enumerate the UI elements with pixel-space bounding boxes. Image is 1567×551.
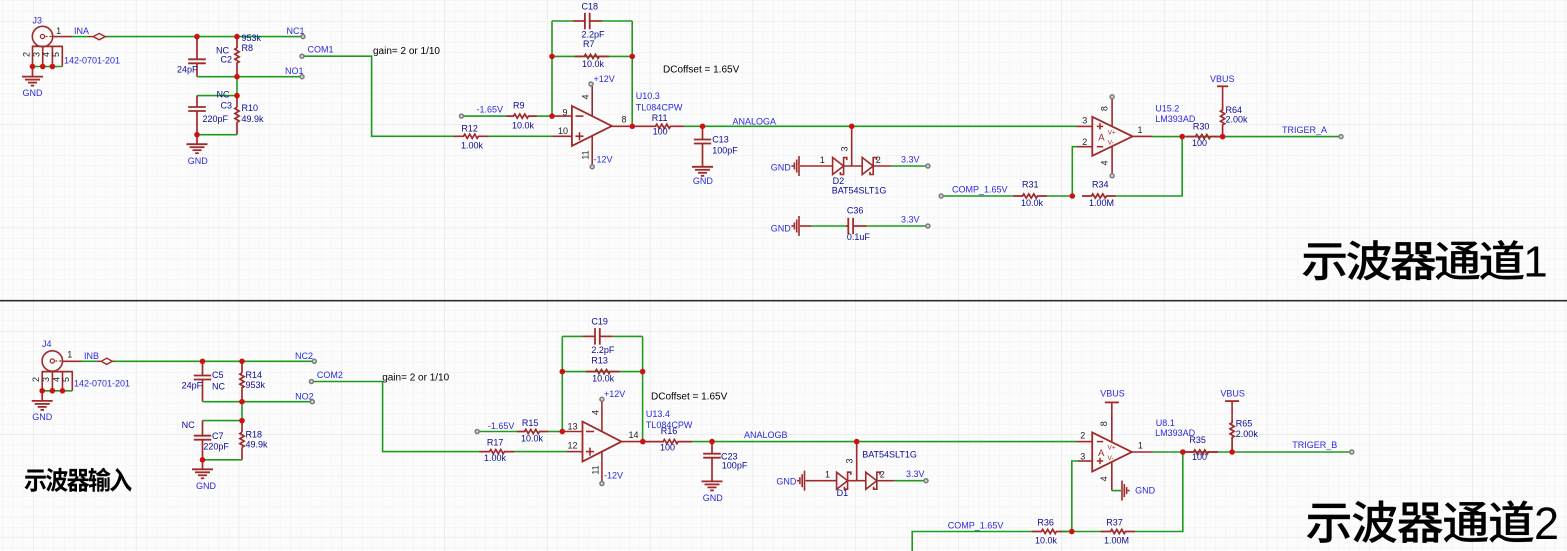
label C18 <box>582 2 599 12</box>
label TL084CPW <box>636 102 683 112</box>
pin number 1 of U15.2 <box>1137 125 1142 135</box>
svg-text:100: 100 <box>1192 138 1207 148</box>
wire C18 row right <box>602 20 632 22</box>
resistor R30 100 <box>1186 135 1220 139</box>
wire R7 row <box>552 55 632 57</box>
label C36 <box>847 206 864 216</box>
wire COMP_1.65V ch2 <box>912 532 1032 551</box>
svg-text:142-0701-201: 142-0701-201 <box>74 378 130 388</box>
svg-text:U8.1: U8.1 <box>1156 418 1175 428</box>
comparator U8.1 LM393AD <box>1077 413 1153 491</box>
port 3.3V at D2 <box>926 164 930 168</box>
svg-text:BAT54SLT1G: BAT54SLT1G <box>862 450 917 460</box>
value 49.9k of R18 <box>246 440 269 450</box>
junction J3 pin3 <box>40 64 46 70</box>
wire D2 middle <box>844 165 863 167</box>
label C5 <box>212 370 224 380</box>
svg-text:GND: GND <box>693 176 714 186</box>
svg-text:1: 1 <box>1137 125 1142 135</box>
resistor R7 10.0k <box>575 54 609 58</box>
wire C3-R10 bottom rail <box>197 134 237 136</box>
resistor R13 10.0k <box>586 370 620 374</box>
label C13 <box>712 134 729 144</box>
net label ANALOGB <box>744 430 788 440</box>
label R15 <box>522 418 539 428</box>
junction R36-R37 <box>1069 529 1075 535</box>
wire pin4 to GND <box>1112 490 1121 492</box>
wire R16 to ANALOGB node <box>692 441 712 443</box>
svg-text:2.2pF: 2.2pF <box>591 345 615 355</box>
label R7 <box>583 39 595 49</box>
value 100 of R35 <box>1192 452 1207 462</box>
wire GND to D2 anode <box>800 165 833 167</box>
label GND at C36 <box>771 224 792 234</box>
junction R13 right <box>640 369 646 375</box>
svg-text:A: A <box>1098 448 1105 459</box>
svg-text:11: 11 <box>581 150 591 159</box>
junction NO1 node <box>234 74 240 80</box>
net label NC1 <box>286 26 304 36</box>
ground GND at C3 <box>187 135 208 154</box>
label R13 <box>591 356 608 366</box>
svg-text:BAT54SLT1G: BAT54SLT1G <box>832 186 887 196</box>
svg-text:GND: GND <box>196 481 217 491</box>
net port diamond INB <box>97 358 115 364</box>
label U8.1 <box>1156 418 1175 428</box>
junction D1 pin3 on ANALOGB <box>854 439 860 445</box>
port 3.3V at C36 <box>926 224 930 228</box>
svg-text:GND: GND <box>771 163 792 173</box>
pin number 12 <box>567 441 577 451</box>
net label +12V at U13.4 <box>604 389 625 399</box>
label R16 <box>661 426 678 436</box>
capacitor C3 220pF <box>188 96 206 135</box>
svg-text:100: 100 <box>653 126 668 136</box>
pin number 4 of U8.1 <box>1099 476 1109 481</box>
annotation gain <box>373 46 440 57</box>
wire C7 top rail <box>203 420 243 422</box>
label GND at U8.1 <box>1135 485 1156 495</box>
svg-text:2: 2 <box>21 52 31 57</box>
svg-text:953k: 953k <box>246 380 266 390</box>
svg-text:220pF: 220pF <box>203 114 229 124</box>
svg-text:R35: R35 <box>1189 435 1206 445</box>
net label ANALOGA <box>733 116 777 126</box>
ground GND signal at D1 <box>797 471 805 491</box>
port COM1 <box>300 54 304 58</box>
net label -1.65V ch2 <box>488 421 515 431</box>
annotation DCoffset <box>663 65 740 76</box>
junction ANALOGA-C13 <box>700 124 706 130</box>
wire INB to NC2 <box>115 360 315 362</box>
svg-text:C13: C13 <box>712 134 729 144</box>
junction R35-R65 <box>1229 449 1235 455</box>
wire comparator plus input ch2 <box>1072 461 1078 532</box>
op-amp U13.4 TL084CPW <box>562 399 643 483</box>
svg-text:R30: R30 <box>1193 122 1210 132</box>
pin 3 lead of D1 <box>856 442 858 481</box>
wire R15 to inverting input <box>548 431 562 433</box>
comparator U15.2 LM393AD <box>1077 97 1153 176</box>
wire R35 row <box>1183 451 1232 453</box>
label R65 <box>1236 419 1253 429</box>
svg-text:100pF: 100pF <box>722 460 748 470</box>
svg-text:ANALOGA: ANALOGA <box>733 116 777 126</box>
svg-text:10.0k: 10.0k <box>1021 198 1044 208</box>
value 2.2pF of C18 <box>582 29 606 39</box>
ground GND at C23 <box>702 481 723 490</box>
svg-text:A: A <box>1098 132 1105 143</box>
svg-text:1: 1 <box>1523 238 1547 287</box>
wire feedback left vertical <box>551 21 553 116</box>
svg-text:2.2pF: 2.2pF <box>582 29 606 39</box>
svg-text:8: 8 <box>1099 421 1109 426</box>
label LM393AD ch2 <box>1155 428 1196 438</box>
capacitor C5 <box>194 361 211 401</box>
port -1.65V ch2 <box>475 430 479 434</box>
wire C3 top rail <box>197 95 237 97</box>
capacitor C2 <box>188 37 206 77</box>
svg-text:-12V: -12V <box>604 471 623 481</box>
ground GND signal at D2 <box>791 156 799 176</box>
svg-text:1: 1 <box>1138 440 1143 450</box>
svg-text:4: 4 <box>581 94 591 99</box>
power VBUS at R65 <box>1225 401 1239 418</box>
svg-text:49.9k: 49.9k <box>246 440 269 450</box>
svg-text:1: 1 <box>56 26 61 36</box>
capacitor C36 0.1uF <box>846 218 867 234</box>
wire -1.65V to R9 <box>464 115 507 117</box>
value 10.0k of R13 <box>592 374 615 384</box>
label R10 <box>242 103 259 113</box>
label R12 <box>461 124 478 134</box>
net port diamond INA <box>88 33 107 39</box>
svg-text:gain= 2 or 1/10: gain= 2 or 1/10 <box>382 372 449 383</box>
value 100pF of C23 <box>722 460 748 470</box>
label C2 <box>221 54 233 64</box>
wire GND to C36 lead <box>800 225 812 227</box>
net label 3.3V at D1 <box>906 469 925 479</box>
label D2 <box>833 176 845 186</box>
net label INB <box>84 351 99 361</box>
svg-text:4: 4 <box>1100 160 1110 165</box>
wire R17 to non-inverting input <box>515 451 568 453</box>
wire C7-R18 bottom rail <box>203 459 243 461</box>
net label 3.3V at C36 <box>901 215 920 225</box>
ground GND at C13 <box>692 164 713 175</box>
label GND at C3 <box>188 156 209 166</box>
label LM393AD <box>1155 114 1196 124</box>
port NO2 <box>310 400 314 404</box>
pin number 2 of D2 <box>876 155 881 165</box>
port NC1 <box>301 35 305 39</box>
svg-text:C2: C2 <box>221 54 233 64</box>
svg-text:+12V: +12V <box>594 74 615 84</box>
ground GND at C7 <box>192 460 213 479</box>
svg-text:1.00k: 1.00k <box>484 453 507 463</box>
pin number 8 of U15.2 <box>1100 106 1110 111</box>
svg-text:R65: R65 <box>1236 419 1253 429</box>
port TRIGER_A <box>1339 135 1343 139</box>
svg-text:U15.2: U15.2 <box>1155 103 1179 113</box>
value 2.00k of R65 <box>1236 429 1259 439</box>
wire COM2 to R17 row <box>311 382 479 452</box>
label GND at D2 <box>771 163 792 173</box>
pin number 3 of D2 <box>839 146 849 151</box>
svg-text:24pF: 24pF <box>182 380 203 390</box>
wire J3 pins to ground <box>33 66 63 68</box>
wire R34 to feedback vertical <box>1116 137 1182 196</box>
connector J3 BNC 142-0701-201 <box>32 26 72 66</box>
wire J4 pin1 to port <box>82 360 97 362</box>
pin number 14 <box>628 430 638 440</box>
svg-text:4: 4 <box>590 410 600 415</box>
junction C3-R10 top node <box>234 93 240 99</box>
svg-text:3.3V: 3.3V <box>901 155 920 165</box>
value 142-0701-201 of J3 <box>64 56 120 66</box>
net label -1.65V <box>477 104 504 114</box>
svg-text:D2: D2 <box>833 176 845 186</box>
label NC of C3 <box>217 89 230 99</box>
ground GND signal at U8.1 <box>1122 481 1130 501</box>
svg-text:3: 3 <box>41 377 51 382</box>
port 3.3V at D1 <box>924 479 928 483</box>
label R35 <box>1189 435 1206 445</box>
svg-text:142-0701-201: 142-0701-201 <box>64 56 120 66</box>
net label NO2 <box>295 391 314 401</box>
value 220pF of C3 <box>203 114 229 124</box>
svg-text:VBUS: VBUS <box>1210 74 1235 84</box>
svg-text:100: 100 <box>660 443 675 453</box>
junction node INA-C2 <box>194 34 200 40</box>
svg-text:U10.3: U10.3 <box>636 91 660 101</box>
value 24pF of C5 <box>182 380 203 390</box>
label GND at C7 <box>196 481 217 491</box>
value 100 of R16 <box>660 443 675 453</box>
svg-text:12: 12 <box>567 441 577 451</box>
svg-text:0.1uF: 0.1uF <box>847 232 871 242</box>
svg-text:2: 2 <box>876 155 881 165</box>
label GND at C23 <box>703 493 724 503</box>
junction output feedback node ch2 <box>1180 449 1186 455</box>
svg-text:R64: R64 <box>1226 105 1243 115</box>
pin number 1 of D1 <box>825 470 830 480</box>
value 10.0k of R7 <box>582 59 605 69</box>
wire C2-R8 bottom to NO1 <box>197 76 302 78</box>
pin number 1 of U8.1 <box>1138 440 1143 450</box>
svg-text:NC: NC <box>182 420 195 430</box>
svg-text:2: 2 <box>31 377 41 382</box>
resistor R37 1.00M <box>1101 529 1135 533</box>
section divider line <box>0 300 1567 302</box>
svg-text:GND: GND <box>32 412 53 422</box>
label R31 <box>1022 180 1039 190</box>
wire R36-R37 row <box>1066 531 1101 533</box>
port NC2 <box>312 359 316 363</box>
title text channel 2 <box>1307 498 1559 549</box>
svg-text:8: 8 <box>621 114 626 124</box>
pin number 2 of U15.2 <box>1082 137 1087 147</box>
svg-text:V-: V- <box>1108 455 1114 462</box>
junction J4 pin4 <box>60 388 66 394</box>
net label -12V at U10.3 <box>594 154 613 164</box>
svg-text:R17: R17 <box>487 437 504 447</box>
wire R11 to ANALOGA node <box>684 125 703 127</box>
port pin8 open <box>1110 95 1114 99</box>
junction op-amp output ch2 <box>640 439 646 445</box>
label R11 <box>652 113 668 123</box>
resistor R11 100 <box>632 124 684 128</box>
label C7 <box>212 431 224 441</box>
svg-text:2.00k: 2.00k <box>1226 115 1249 125</box>
wire R36 to node <box>1062 531 1072 533</box>
label R64 <box>1226 105 1243 115</box>
resistor R35 100 <box>1184 450 1218 454</box>
value 100 of R11 <box>653 126 668 136</box>
junction C7 ground node <box>200 457 206 463</box>
label U10.3 <box>636 91 660 101</box>
svg-text:3.3V: 3.3V <box>901 215 920 225</box>
junction J3 pin2 <box>30 64 36 70</box>
wire D1 middle <box>848 480 866 482</box>
port -1.65V <box>460 114 464 118</box>
wire feedback right vertical <box>631 21 633 126</box>
pin number 2 of D1 <box>880 470 885 480</box>
svg-text:GND: GND <box>771 224 792 234</box>
svg-text:5: 5 <box>51 52 61 57</box>
svg-text:1: 1 <box>820 155 825 165</box>
net label COM2 <box>317 370 343 380</box>
svg-text:-1.65V: -1.65V <box>488 421 515 431</box>
svg-text:COMP_1.65V: COMP_1.65V <box>948 521 1004 531</box>
wire COMP to R31 <box>943 195 1013 197</box>
svg-text:R13: R13 <box>591 356 608 366</box>
svg-text:R31: R31 <box>1022 180 1039 190</box>
value 1.00k of R17 <box>484 453 507 463</box>
svg-text:10: 10 <box>558 126 568 136</box>
net label VBUS at R64 <box>1210 74 1235 84</box>
resistor R14 953k <box>240 361 244 401</box>
wire D2 cathode lead <box>873 165 892 167</box>
resistor R18 49.9k <box>240 421 244 460</box>
value 10.0k of R15 <box>521 434 544 444</box>
svg-text:1: 1 <box>67 350 72 360</box>
pin number 4 of U15.2 <box>1100 160 1110 165</box>
svg-text:1.00k: 1.00k <box>461 141 484 151</box>
value 953k of R8 <box>242 33 262 43</box>
svg-text:GND: GND <box>776 476 797 486</box>
value 1.00M of R34 <box>1089 198 1114 208</box>
svg-text:R12: R12 <box>461 124 478 134</box>
value 24pF of C2 <box>177 65 198 75</box>
label GND at D1 <box>776 476 797 486</box>
svg-text:U13.4: U13.4 <box>646 409 670 419</box>
value 10.0k of R31 <box>1021 198 1044 208</box>
wire pin1 to R30 <box>1153 136 1183 138</box>
svg-text:TL084CPW: TL084CPW <box>636 102 683 112</box>
svg-text:4: 4 <box>1099 476 1109 481</box>
pin number 11 <box>581 150 591 159</box>
svg-text:COMP_1.65V: COMP_1.65V <box>952 185 1008 195</box>
svg-text:R10: R10 <box>242 103 259 113</box>
svg-text:GND: GND <box>188 156 209 166</box>
wire feedback left vertical ch2 <box>561 336 563 431</box>
value 10.0k of R36 <box>1035 536 1058 546</box>
label NC of C5 <box>212 381 225 391</box>
label J3 <box>33 16 43 26</box>
label R17 <box>487 437 504 447</box>
label R14 <box>246 370 263 380</box>
value 2.2pF of C19 <box>591 345 615 355</box>
value 100pF of C13 <box>712 145 738 155</box>
wire C19 row right <box>612 335 643 337</box>
junction node INB-R14 <box>239 359 245 365</box>
port -12V at U13.4 <box>600 482 604 486</box>
resistor R15 10.0k <box>517 429 548 433</box>
annotation DCoffset ch2 <box>651 391 728 402</box>
label J4 <box>42 339 52 349</box>
net label VBUS at U8.1 <box>1100 389 1125 399</box>
svg-text:2: 2 <box>1534 498 1559 549</box>
svg-text:10.0k: 10.0k <box>521 434 544 444</box>
wire pin1 to R35 <box>1153 451 1183 453</box>
svg-text:INB: INB <box>84 351 99 361</box>
pin number 8 of U8.1 <box>1099 421 1109 426</box>
value 142-0701-201 of J4 <box>74 378 130 388</box>
svg-text:C18: C18 <box>582 2 599 12</box>
label R8 <box>242 43 254 53</box>
svg-text:10.0k: 10.0k <box>582 59 605 69</box>
wire NO2 junction down <box>241 402 243 421</box>
svg-text:1.00M: 1.00M <box>1089 198 1114 208</box>
label U13.4 <box>646 409 670 419</box>
svg-text:14: 14 <box>628 430 638 440</box>
svg-text:VBUS: VBUS <box>1100 389 1125 399</box>
svg-text:+12V: +12V <box>604 389 625 399</box>
label R37 <box>1106 517 1123 527</box>
value BAT54SLT1G of D2 <box>832 186 887 196</box>
capacitor C13 100pF <box>694 126 711 164</box>
net label NC2 <box>295 351 313 361</box>
svg-text:R34: R34 <box>1092 180 1109 190</box>
junction C3 ground node <box>194 132 200 138</box>
pin number 13 <box>567 422 577 432</box>
junction C7-R18 top node <box>239 418 245 424</box>
net label COMP_1.65V <box>952 185 1008 195</box>
resistor R8 953k <box>235 37 239 77</box>
value 49.9k of R10 <box>242 114 265 124</box>
label C23 <box>721 451 738 461</box>
svg-text:C19: C19 <box>591 317 608 327</box>
wire C5-R14 bottom to NO2 <box>203 401 313 403</box>
op-amp U10.3 TL084CPW <box>552 84 632 167</box>
net label 3.3V at D2 <box>901 155 920 165</box>
wire TRIGER_A <box>1223 136 1341 138</box>
wire TRIGER_B <box>1232 451 1352 453</box>
svg-text:-12V: -12V <box>594 154 613 164</box>
svg-text:gain= 2 or 1/10: gain= 2 or 1/10 <box>373 46 440 57</box>
connector J4 BNC 142-0701-201 <box>42 351 82 391</box>
label C19 <box>591 317 608 327</box>
svg-text:3: 3 <box>32 52 42 57</box>
resistor R9 10.0k <box>506 114 537 118</box>
net label +12V at U10.3 <box>594 74 615 84</box>
wire COM1 to R12 row <box>302 56 454 136</box>
svg-text:V-: V- <box>1108 140 1114 147</box>
net label VBUS at R65 <box>1220 389 1245 399</box>
capacitor C7 220pF <box>194 421 211 460</box>
port NO1 <box>300 75 304 79</box>
